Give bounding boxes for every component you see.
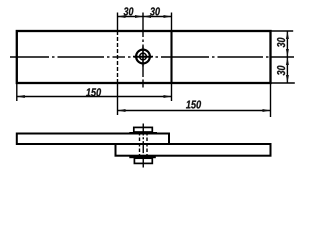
label 30 (right of hole axis) (150, 7, 160, 15)
extension line x=117.5 above plate (117, 13, 119, 32)
extension line x=117.5 below plate (117, 83, 119, 115)
label 30 (upper right, rotated) (277, 38, 285, 48)
arrow down to bottom edge (286, 75, 289, 83)
washer under nut (129, 155, 156, 158)
extension line x=171.5 below plate (171, 83, 173, 101)
arrow at x=117.5 pointing left (118, 15, 126, 18)
arrow left (118, 109, 126, 112)
arrows meeting at centerline (286, 49, 289, 57)
extension line x=171.5 above plate (171, 13, 173, 32)
plate P1+P2 combined outline (top view) (17, 31, 271, 83)
plate P1 right edge (visible) (170, 31, 172, 83)
crosshair solid segments through hole (133, 56, 153, 58)
washer under bolt head (129, 132, 157, 135)
label 150 (plate P2) (186, 100, 201, 108)
bolt shank hidden line left (139, 132, 141, 158)
upper plate P1 (side) (17, 134, 169, 145)
arrow left (17, 95, 25, 98)
arrows meeting at x=143 (135, 15, 143, 18)
arrow up to top edge (286, 31, 289, 39)
arrow at x=171.5 pointing right (164, 15, 172, 18)
label 30 (lower right, rotated) (277, 66, 285, 76)
dimension line 150 (plate P1 length) (17, 96, 172, 98)
extension line bottom edge right side (272, 82, 295, 84)
dimension line 30-30 (top) (118, 16, 172, 18)
label 150 (plate P1) (86, 88, 101, 96)
centerline vertical (hole axis / extension for 30-30 dim) (142, 13, 144, 38)
lower plate P2 (side) (116, 144, 271, 156)
arrow right (164, 95, 172, 98)
bolt centerline (side view) (142, 124, 144, 168)
centerline right extension (solid) (271, 56, 294, 58)
bolt shank hidden line right (146, 132, 148, 158)
hole outer circle (washer outline) (136, 50, 150, 64)
bolt head (134, 127, 153, 132)
plate P2 left edge (hidden, dashed) (117, 31, 119, 83)
hole inner circle (bolt shank) (140, 53, 147, 60)
arrow right (263, 109, 271, 112)
label 30 (left of hole axis) (124, 7, 134, 15)
dimension line 150 (plate P2 length) (118, 110, 271, 112)
joint interface line (overlap) (116, 143, 170, 145)
centerline horizontal (plate axis) (10, 56, 49, 58)
vertical dimension line 30/30 (right) (286, 31, 288, 83)
nut (134, 158, 152, 163)
extension line top edge right side (272, 30, 294, 32)
extension line x=16.8 below plate (16, 84, 18, 101)
extension line x=270.5 below plate (270, 84, 272, 117)
